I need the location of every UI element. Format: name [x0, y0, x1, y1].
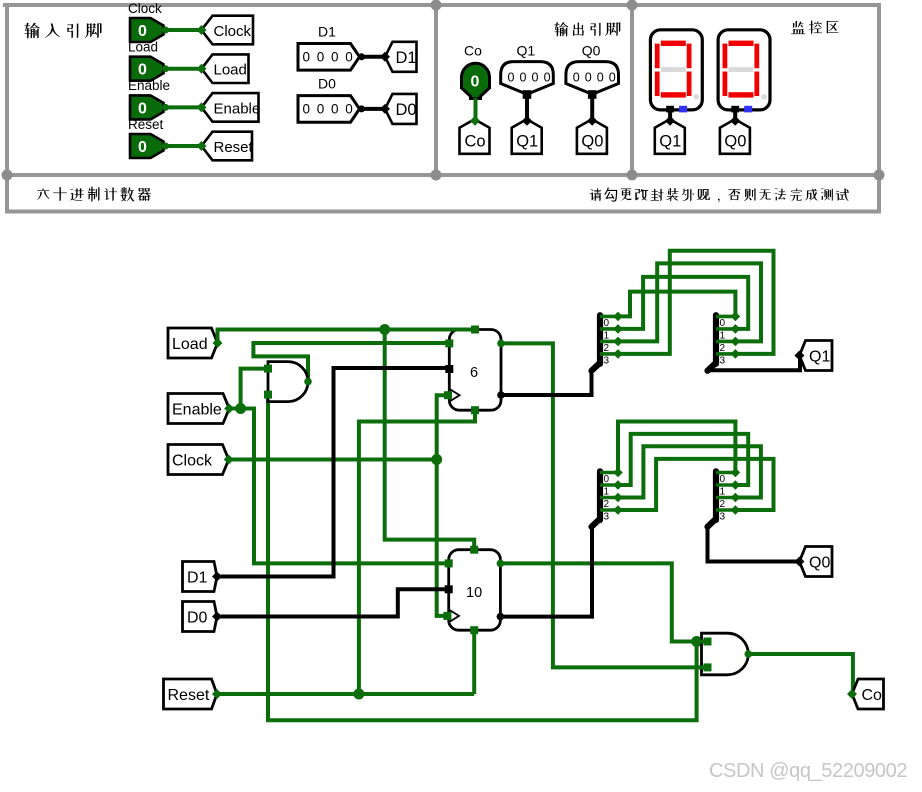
- svg-text:Q1: Q1: [659, 133, 681, 151]
- splitter A (counter6 Q) pin 3: [600, 349, 623, 366]
- splitter C (counter10 Q) pin 0: [600, 468, 623, 485]
- pin U4 clock: [443, 612, 451, 620]
- wire Clock junction up to counter6 CK pin: [437, 395, 448, 459]
- splitter D (Q0 bus) pin 2: [716, 493, 740, 510]
- pin U3 clock: [444, 391, 452, 399]
- svg-text:六十进制计数器: 六十进制计数器: [35, 186, 153, 202]
- svg-text:3: 3: [604, 355, 610, 366]
- splitter B (Q1 bus) pin 2: [716, 337, 740, 354]
- border frame: [2, 0, 885, 214]
- svg-text:0: 0: [138, 62, 147, 79]
- node carry10 junction at AND2 input: [691, 636, 702, 647]
- wire splitter A pin1 to splitter B pin1: [618, 277, 748, 329]
- pin U3 reset (bottom): [471, 406, 479, 414]
- counter U4 modulo 10: [449, 550, 501, 631]
- wire splitter C pin2 to splitter D pin2: [618, 446, 761, 497]
- pin U4 carry out: [497, 560, 505, 568]
- svg-text:Load: Load: [172, 336, 208, 353]
- pin U3 enable (left): [445, 339, 453, 347]
- splitter C (counter10 Q) pin 1: [600, 480, 623, 497]
- svg-text:输入引脚: 输入引脚: [23, 22, 105, 40]
- tunnel Q0 (schematic): [794, 547, 832, 577]
- wire Enable pin to tunnel: [162, 104, 202, 111]
- splitter C (counter10 Q) fan-out bar: [592, 471, 601, 527]
- svg-text:0 0 0 0: 0 0 0 0: [573, 71, 617, 85]
- splitter D (Q0 bus) pin 0: [716, 468, 740, 485]
- tunnel Co (schematic): [847, 679, 884, 709]
- splitter A (counter6 Q) pin 1: [600, 324, 623, 341]
- node Enable junction: [235, 403, 246, 414]
- svg-text:3: 3: [720, 355, 726, 366]
- pin U3 load (top): [471, 326, 479, 334]
- wire Enable junction up to AND1 input A: [241, 369, 268, 409]
- pin U3 data D: [445, 365, 453, 373]
- pin U2 output: [745, 650, 753, 658]
- wire Co pin to tunnel: [474, 98, 478, 121]
- svg-text:Reset: Reset: [214, 139, 254, 156]
- pin U1 input A: [264, 365, 272, 373]
- splitter B (Q1 bus) pin 3: [716, 349, 740, 366]
- svg-text:Load: Load: [128, 40, 158, 55]
- wire counter10 carry to AND2 input A: [500, 563, 711, 641]
- svg-text:0: 0: [471, 74, 480, 91]
- tunnel Q1 (schematic): [794, 341, 832, 371]
- wire riser to counter10 R pin: [472, 630, 476, 694]
- pin U4 reset (bottom): [470, 626, 478, 634]
- tunnel Q0 (output panel): [577, 116, 607, 154]
- bus wire D0 pin to tunnel: [358, 105, 385, 112]
- tunnel Reset (schematic): [164, 679, 223, 709]
- bus wire Q1 pin to tunnel: [525, 98, 529, 121]
- wire splitter C pin0 to splitter D pin0: [618, 422, 735, 473]
- svg-text:Load: Load: [214, 62, 247, 79]
- svg-text:Co: Co: [464, 43, 482, 59]
- svg-text:请勾更改封装外观，否则无法完成测试: 请勾更改封装外观，否则无法完成测试: [588, 187, 850, 203]
- tunnel Clock (schematic): [168, 445, 234, 475]
- splitter B (Q1 bus) fan-out bar: [708, 315, 717, 371]
- 7-segment display digit Q1: [650, 30, 702, 113]
- wire splitter A pin2 to splitter B pin2: [618, 263, 761, 341]
- splitter A (counter6 Q) pin 2: [600, 337, 623, 354]
- wire splitter C pin3 to splitter D pin3: [618, 459, 774, 510]
- svg-text:0: 0: [138, 23, 147, 40]
- input pin Enable value 0: [130, 95, 164, 119]
- splitter B (Q1 bus) pin 0: [716, 312, 740, 329]
- node Load junction: [379, 324, 390, 335]
- input pin Clock value 0: [130, 18, 164, 42]
- svg-text:D1: D1: [187, 570, 208, 587]
- tunnel Load (schematic): [168, 328, 223, 358]
- svg-text:Enable: Enable: [128, 78, 170, 93]
- tunnel D0 (schematic): [183, 602, 223, 632]
- pin U2 input A: [704, 638, 712, 646]
- svg-text:Clock: Clock: [214, 23, 252, 40]
- bus D0 tunnel to counter10 D input: [217, 589, 449, 616]
- splitter D (Q0 bus) fan-out bar: [708, 471, 717, 527]
- tunnel Clock (input panel): [197, 16, 254, 45]
- wire AND2 output to Co tunnel: [748, 654, 853, 694]
- counter U3 modulo 6: [449, 330, 501, 411]
- wire Load overlay on counter6 top edge: [447, 328, 475, 332]
- wire Load net: tunnel up to counter6 LD pin, across top: [218, 330, 476, 344]
- wire Load branch down to counter10 LD pin: [385, 330, 475, 550]
- pin U4 enable (left): [445, 559, 453, 567]
- splitter D (Q0 bus) pin 3: [716, 505, 740, 522]
- bus wire display Q1 to tunnel: [668, 112, 672, 121]
- svg-text:监控区: 监控区: [790, 19, 842, 35]
- wire Clock tunnel to junction: [229, 458, 437, 462]
- svg-text:Q1: Q1: [809, 349, 830, 366]
- wire AND1 input B down-around to AND2 junction: [268, 395, 697, 721]
- wire Enable tunnel to junction: [229, 407, 240, 411]
- tunnel D1 (input panel): [380, 42, 417, 72]
- pin U1 input B: [264, 391, 272, 399]
- node Reset junction: [353, 689, 364, 700]
- svg-text:D0: D0: [187, 610, 208, 627]
- pin U3 Q out: [497, 391, 505, 399]
- svg-text:Clock: Clock: [172, 453, 213, 470]
- svg-text:0 0 0 0: 0 0 0 0: [303, 102, 355, 117]
- output pin Co value 0: [462, 63, 490, 98]
- pin U2 input B: [704, 663, 712, 671]
- bus counter10 Q to splitter C: [500, 529, 592, 617]
- tunnel Enable (input panel): [197, 93, 261, 122]
- tunnel Q1 (monitor): [655, 116, 685, 154]
- splitter C (counter10 Q) pin 2: [600, 493, 623, 510]
- splitter A (counter6 Q) pin 0: [600, 312, 623, 329]
- svg-text:0: 0: [138, 100, 147, 117]
- svg-text:0 0 0 0: 0 0 0 0: [508, 71, 552, 85]
- splitter A (counter6 Q) fan-out bar: [592, 315, 601, 371]
- wire Reset junction up to counter6 R pin: [359, 410, 475, 694]
- bus D1 tunnel to counter6 D input: [217, 368, 449, 577]
- pin U1 output: [304, 378, 312, 386]
- pin U4 load (top): [470, 546, 478, 554]
- output pin Q0 4-bit 0000: [566, 62, 619, 99]
- svg-text:Enable: Enable: [214, 100, 261, 117]
- node Clock junction: [431, 454, 442, 465]
- pin U4 data D: [445, 585, 453, 593]
- svg-text:10: 10: [466, 585, 482, 601]
- svg-text:D0: D0: [396, 101, 417, 119]
- bus splitter B to tunnel Q1: [708, 356, 801, 371]
- svg-text:0 0 0 0: 0 0 0 0: [303, 50, 355, 65]
- AND gate U1 (enable gating): [268, 362, 308, 402]
- bus wire Q0 pin to tunnel: [590, 98, 594, 121]
- svg-text:0: 0: [138, 139, 147, 156]
- wire overlay to U2 input A: [700, 640, 712, 644]
- tunnel D0 (input panel): [380, 94, 417, 124]
- wire counter6 carry to AND2 input B: [501, 343, 704, 667]
- svg-text:CSDN @qq_52209002: CSDN @qq_52209002: [709, 760, 907, 782]
- splitter C (counter10 Q) pin 3: [600, 505, 623, 522]
- wire overlay to U2 input B: [700, 665, 712, 669]
- tunnel Reset (input panel): [197, 132, 254, 161]
- wire Load pin to tunnel: [162, 65, 202, 72]
- wire splitter A pin3 to splitter B pin3: [618, 251, 774, 354]
- bus wire D1 pin to tunnel: [358, 53, 385, 60]
- svg-text:Q0: Q0: [581, 133, 603, 151]
- wire AND1 output to counter6 EN pin: [253, 343, 449, 382]
- svg-text:Q0: Q0: [809, 555, 830, 572]
- tunnel Q1 (output panel): [512, 116, 542, 154]
- 7-segment display digit Q0: [718, 30, 770, 113]
- svg-text:输出引脚: 输出引脚: [553, 21, 622, 37]
- svg-text:Co: Co: [465, 133, 486, 151]
- wire Reset pin to tunnel: [162, 143, 202, 150]
- svg-text:3: 3: [720, 512, 726, 523]
- AND gate U2 (carry out): [702, 633, 749, 675]
- svg-text:Reset: Reset: [128, 117, 164, 132]
- tunnel D1 (schematic): [183, 562, 223, 592]
- splitter D (Q0 bus) pin 1: [716, 480, 740, 497]
- output pin Q1 4-bit 0000: [501, 62, 554, 99]
- input pin Load value 0: [130, 57, 164, 81]
- svg-text:Q0: Q0: [582, 43, 601, 59]
- svg-text:D1: D1: [396, 49, 417, 67]
- svg-text:Q1: Q1: [516, 133, 538, 151]
- svg-text:6: 6: [470, 365, 478, 381]
- svg-text:Co: Co: [862, 687, 883, 704]
- wire Reset tunnel across to counter10 R pin riser: [217, 692, 474, 696]
- tunnel Enable (schematic): [168, 394, 234, 424]
- wire Clock junction down to counter10 CK pin: [437, 460, 448, 616]
- pin U4 Q out: [497, 613, 505, 621]
- svg-text:3: 3: [604, 512, 610, 523]
- bus wire display Q0 to tunnel: [733, 112, 737, 121]
- tunnel Q0 (monitor): [720, 116, 750, 154]
- svg-text:Q1: Q1: [517, 43, 536, 59]
- tunnel Co (output panel): [460, 116, 490, 154]
- wire Clock pin to tunnel: [162, 27, 202, 34]
- svg-text:Clock: Clock: [128, 1, 162, 16]
- bus counter6 Q to splitter A: [501, 371, 592, 395]
- input pin D0 4-bit 0000: [298, 96, 360, 123]
- wire splitter A pin0 to splitter B pin0: [618, 292, 735, 317]
- bus splitter D to tunnel Q0: [708, 529, 800, 562]
- svg-text:Q0: Q0: [724, 133, 746, 151]
- svg-text:Reset: Reset: [168, 687, 210, 704]
- input pin D1 4-bit 0000: [298, 44, 360, 71]
- tunnel Load (input panel): [197, 54, 249, 83]
- input pin Reset value 0: [130, 134, 164, 158]
- svg-text:D0: D0: [318, 76, 336, 92]
- svg-text:D1: D1: [318, 24, 336, 40]
- wire Enable junction to counter10 EN pin: [241, 409, 449, 564]
- pin U3 carry out: [497, 340, 505, 348]
- splitter B (Q1 bus) pin 1: [716, 324, 740, 341]
- svg-text:Enable: Enable: [172, 402, 222, 419]
- wire splitter C pin1 to splitter D pin1: [618, 434, 748, 485]
